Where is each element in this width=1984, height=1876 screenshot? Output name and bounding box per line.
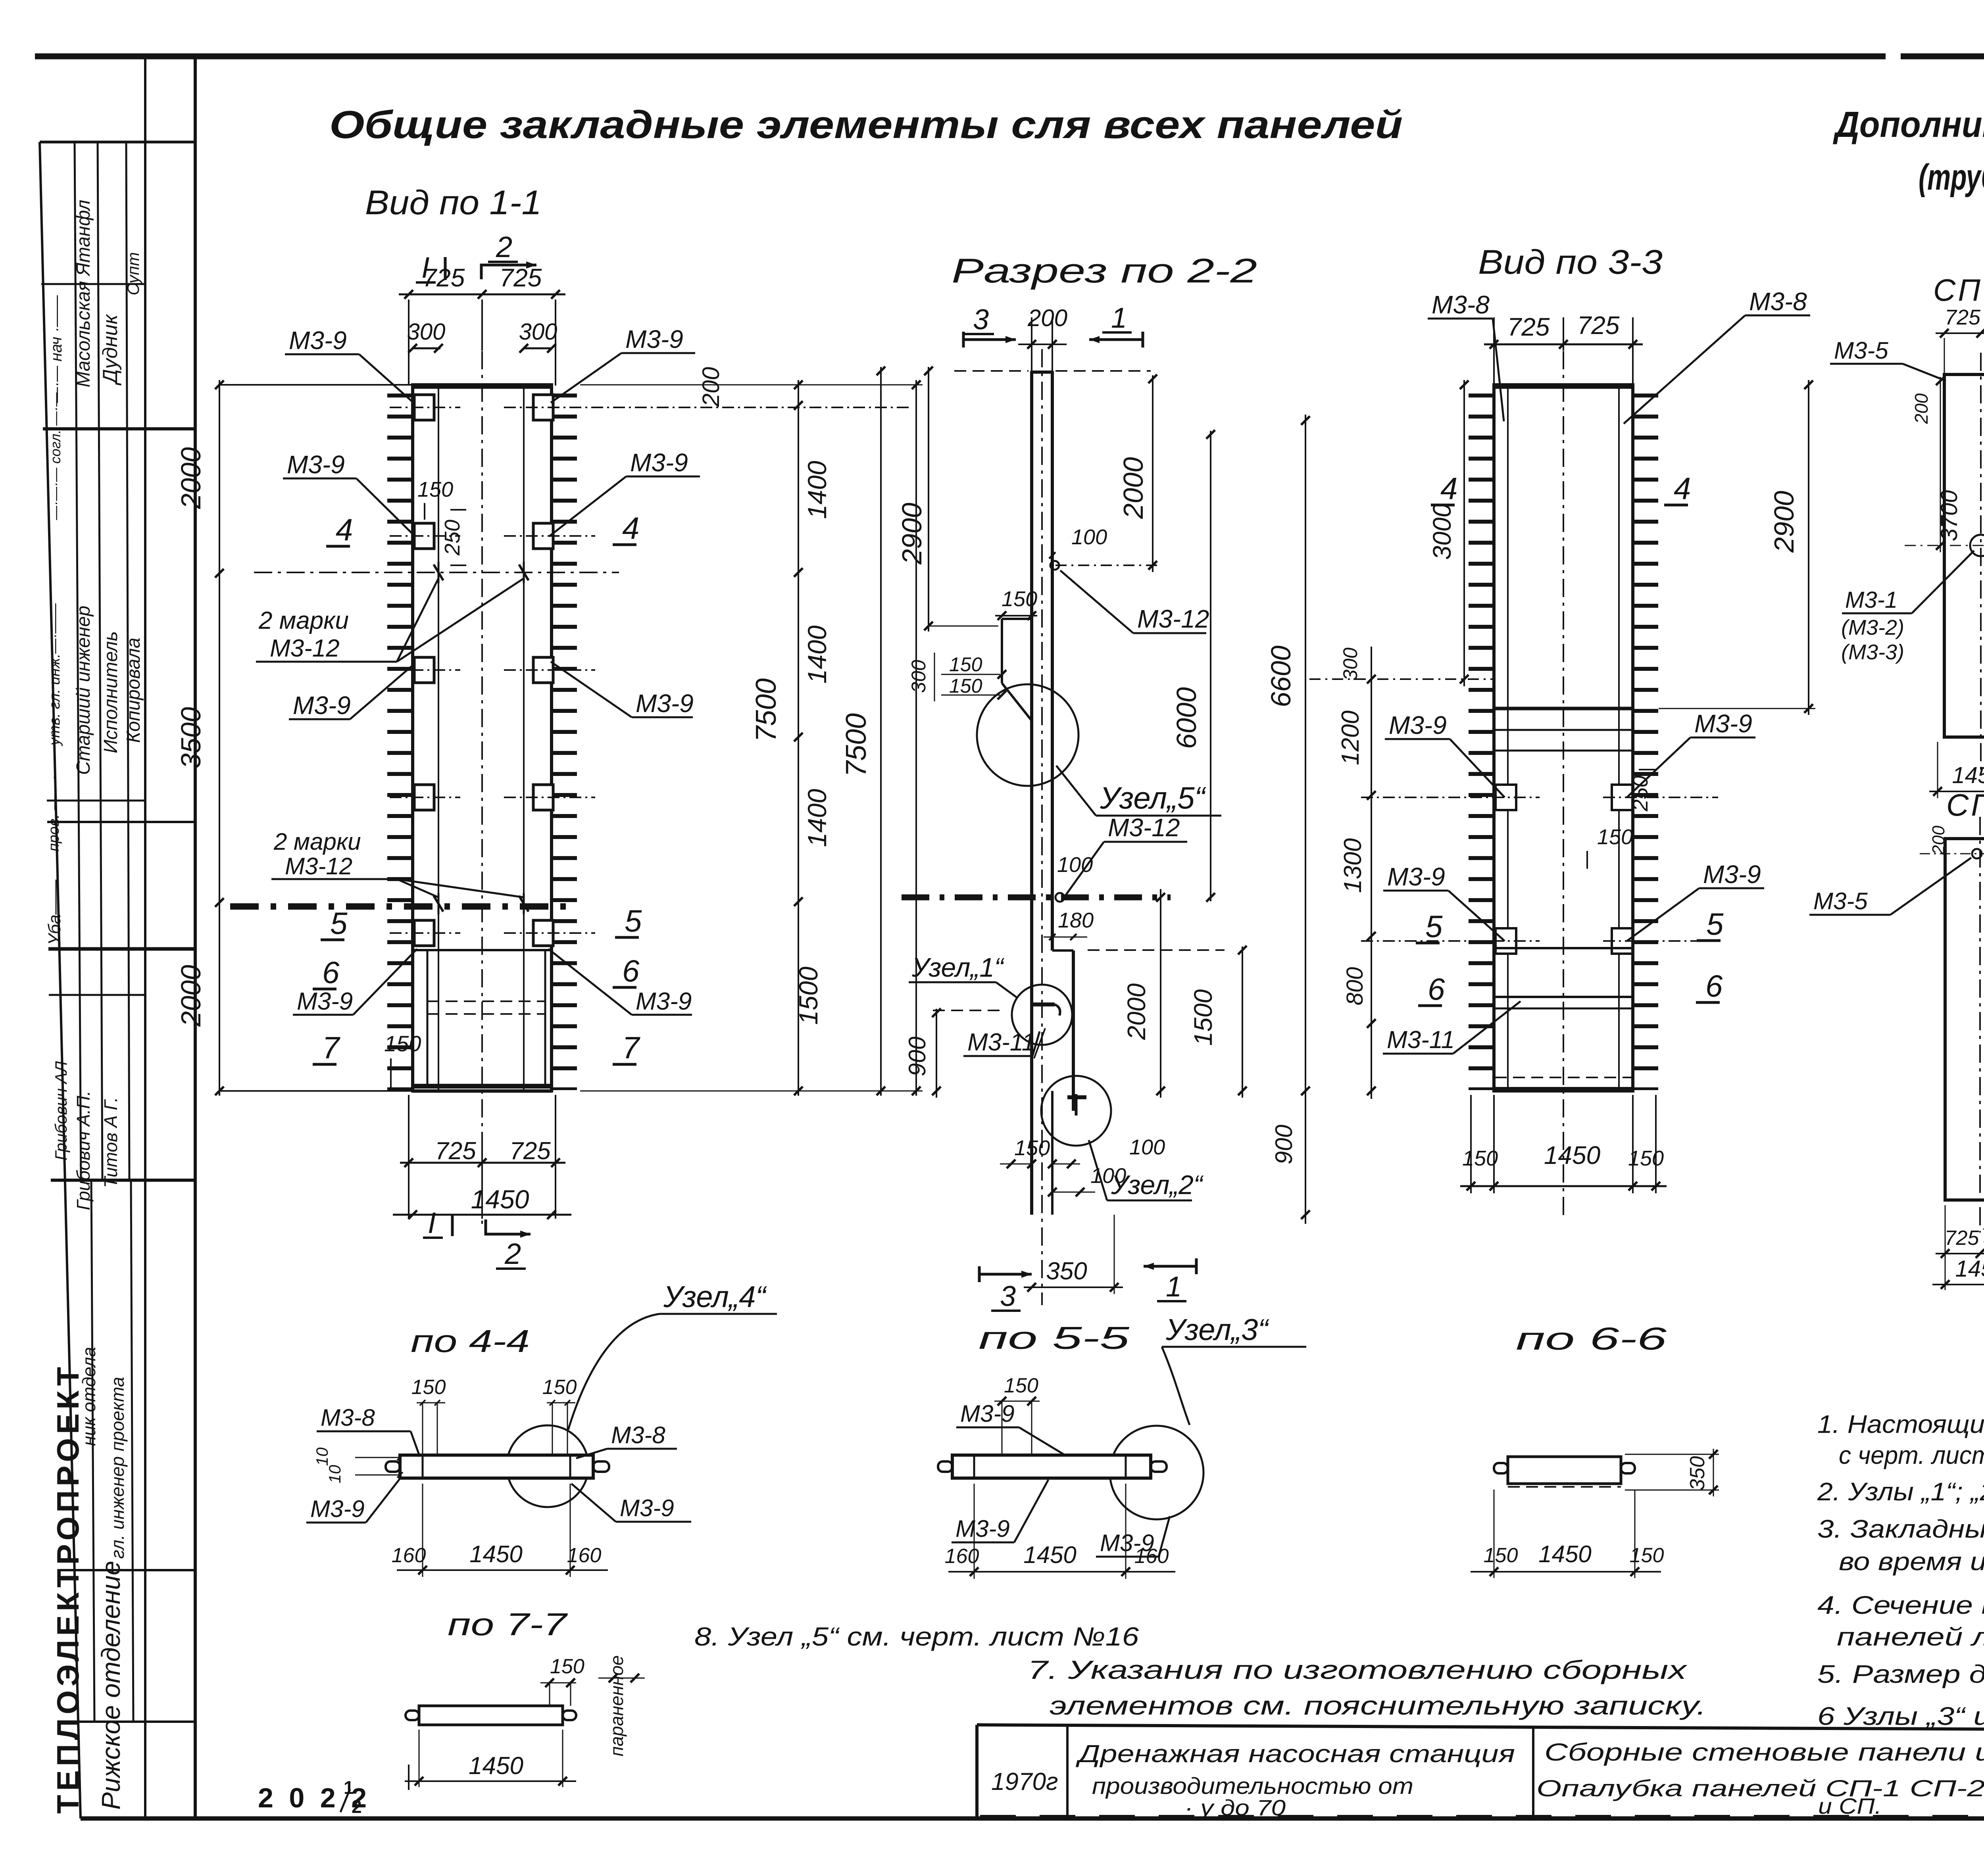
view 1-1 heavy line y2285 [230,903,569,910]
svg-text:Узел„4“: Узел„4“ [663,1280,767,1314]
sidebar horizontal rule y2392 [48,947,195,951]
view 1-1 dim 300 left [413,348,440,349]
embedded plate M3-9 right [533,920,553,946]
view 3-3 inner edge lines [1507,385,1509,1091]
svg-text:150: 150 [542,1376,577,1399]
sidebar horizontal rule y358 [40,141,195,144]
svg-text:7: 7 [322,1030,340,1065]
svg-text:150: 150 [949,675,982,697]
title block cell rules [1066,1726,1069,1818]
svg-text:725: 725 [1507,313,1550,341]
svg-text:725: 725 [1981,1224,1984,1247]
svg-text:1450: 1450 [1952,762,1984,788]
svg-text:150: 150 [1014,1136,1050,1160]
embedded plate M3-9 right [533,395,553,420]
embedded plate M3-9 left [414,523,434,549]
svg-text:2: 2 [352,1796,362,1817]
svg-text:Узел„3“: Узел„3“ [1165,1313,1269,1347]
svg-text:М3-11: М3-11 [967,1029,1035,1056]
plate axis line [390,797,460,798]
svg-text:150: 150 [411,1376,446,1399]
svg-text:М3-5: М3-5 [1834,337,1888,364]
svg-text:М3-12: М3-12 [1108,813,1180,842]
svg-text:Копировала: Копировала [123,637,144,743]
svg-text:М3-9: М3-9 [293,691,351,720]
svg-text:1450: 1450 [469,1541,522,1567]
section 2-2 wall step [1002,618,1032,620]
section 2-2 mark 3 bottom [979,1273,1032,1276]
svg-text:Масольская Ятанфл: Масольская Ятанфл [73,200,94,388]
svg-text:200: 200 [1911,393,1932,424]
svg-text:М3-9: М3-9 [625,325,683,353]
view 1-1 extension bottom [219,1090,413,1092]
sidebar horizontal rule y1081 [43,427,195,430]
svg-text:900: 900 [1271,1125,1297,1164]
embedded plate M3-9 right [533,523,553,549]
sidebar horizontal rule y716 [41,283,145,285]
view 1-1 top dim 725+725 [408,300,409,386]
svg-text:Грибович АЛ: Грибович АЛ [52,1061,70,1160]
title block bottom dashes [980,1815,1984,1817]
svg-text:7500: 7500 [750,678,782,742]
svg-text:I: I [428,1206,436,1239]
svg-text:150: 150 [417,478,453,501]
plate axis line [390,407,460,408]
section 2-2 foot step [1052,949,1073,952]
svg-text:Дополнительные закладные эле: Дополнительные закладные элементы [1833,104,1984,145]
view 3-3 joint band [1494,707,1633,710]
sidebar horizontal rule y4340 [64,1720,195,1723]
view 3-3 top dim 725+725 [1493,317,1495,386]
view 1-1 guide line y1443 [254,572,619,573]
sidebar horizontal rule y2975 [51,1179,195,1182]
svg-text:Вид по 1-1: Вид по 1-1 [365,184,542,222]
section 5-5 detail circle [1110,1426,1203,1519]
svg-text:300: 300 [407,319,446,345]
svg-text:180: 180 [1058,908,1094,932]
svg-text:М3-12: М3-12 [285,853,352,879]
panel SP-4 bottom dims [1936,1253,1984,1254]
view 3-3 plates [1496,785,1516,810]
svg-text:М3-8: М3-8 [321,1404,375,1431]
svg-text:—·— нач ·——: —·— нач ·—— [48,295,65,403]
detail circle Uzel 5 [977,684,1079,786]
svg-text:6 Узлы „3“ и „4“ разработ. на: 6 Узлы „3“ и „4“ разработ. на листе № 12 [1817,1702,1984,1730]
view 1-1 inner edge lines [438,385,439,1091]
svg-text:Вид по 3-3: Вид по 3-3 [1478,243,1663,281]
view 1-1 overall dim chain 7500 [915,380,917,1096]
svg-text:1400: 1400 [802,789,832,847]
svg-text:900: 900 [904,1037,930,1076]
sidebar right rule [144,56,146,1818]
sidebar horizontal rule y2508 [49,994,145,996]
view 3-3 left chain segments [1371,647,1372,1099]
svg-text:по 4-4: по 4-4 [411,1323,530,1359]
svg-text:2: 2 [496,230,512,263]
svg-text:2 марки: 2 марки [273,828,361,855]
section 2-2 chain 900 left [936,1009,937,1098]
view 1-1 foot dashed lines [427,1000,545,1002]
view 1-1 centerline [481,351,483,1228]
svg-text:1970г: 1970г [991,1768,1058,1795]
svg-text:725: 725 [500,263,542,292]
svg-text:М3-8: М3-8 [611,1422,665,1448]
svg-text:· у до 70: · у до 70 [1184,1795,1286,1820]
view 1-1 foot walls [427,950,429,1088]
svg-text:Дудник: Дудник [99,314,122,386]
svg-text:по 7-7: по 7-7 [448,1607,568,1642]
svg-text:Общие закладные элементы: Общие закладные элементы сля всех панеле… [329,103,1403,146]
svg-text:Узел„1“: Узел„1“ [911,952,1005,983]
page frame top border [35,54,1886,60]
svg-text:2000: 2000 [1122,983,1151,1040]
svg-text:725: 725 [435,1137,476,1165]
svg-text:1. Настоящий чертеж рассматр: 1. Настоящий чертеж рассматривать совмес… [1817,1410,1984,1438]
section 2-2 chain 7500 [880,367,882,1096]
svg-text:1450: 1450 [469,1752,523,1780]
svg-text:1200: 1200 [1337,710,1364,765]
svg-text:6600: 6600 [1265,645,1296,707]
view 1-1 right extensions [580,384,923,386]
panel SP-1 pipe hole [1970,535,1984,556]
view 3-3 chain 3000 [1463,380,1465,686]
svg-text:725: 725 [509,1137,551,1165]
svg-text:160: 160 [1134,1545,1169,1568]
svg-text:150: 150 [1484,1544,1518,1567]
title block left edge [975,1725,979,1818]
svg-text:7500: 7500 [840,713,872,777]
view 1-1 dim 300 right [523,348,552,349]
svg-text:1450: 1450 [1955,1256,1984,1282]
view 3-3 bottom features [1494,947,1633,949]
svg-text:пров. ——·: пров. ——· [46,775,62,852]
section 6-6 dim 350 [1713,1449,1714,1496]
svg-text:М3-9: М3-9 [955,1515,1010,1542]
section 4-4 bar [400,1455,593,1478]
section 2-2 centerline [1041,349,1043,1305]
svg-text:150: 150 [1597,825,1633,849]
svg-text:200: 200 [1929,826,1948,855]
section 5-5 bottom dim [974,1484,975,1579]
svg-text:2900: 2900 [896,503,927,565]
svg-text:2. Узлы „1“; „2“ см. лист № 1: 2. Узлы „1“; „2“ см. лист № 10 [1817,1477,1984,1506]
view 1-1 hatch right [552,394,577,1090]
svg-text:М3-5: М3-5 [1813,888,1868,914]
svg-text:1450: 1450 [1544,1141,1601,1169]
svg-text:150: 150 [1628,1146,1664,1170]
section 6-6 bottom dim [1494,1490,1495,1578]
view 1-1 extension top [219,384,413,386]
svg-text:100: 100 [1071,525,1107,549]
svg-text:М3-9: М3-9 [310,1496,365,1522]
svg-text:6: 6 [622,953,640,988]
svg-text:5: 5 [1425,909,1443,944]
svg-text:СП-4: СП-4 [1946,787,1984,822]
svg-text:800: 800 [1342,967,1368,1006]
svg-text:150: 150 [1462,1146,1498,1170]
section 2-2 chain 1500 [1242,947,1243,1098]
sidebar column rule lower A [91,1180,94,1722]
view 1-1 bottom heavy edge [413,1084,552,1089]
svg-text:СП-1: СП-1 [1933,273,1984,307]
svg-text:гл. инженер проекта: гл. инженер проекта [107,1377,128,1559]
svg-text:по 5-5: по 5-5 [979,1320,1130,1356]
section 6-6 bar [1508,1457,1621,1484]
svg-text:6: 6 [1705,968,1723,1003]
section 7-7 bottom dim 1450 [419,1730,420,1787]
svg-text:М3-8: М3-8 [1432,290,1490,319]
svg-text:М3-9: М3-9 [1387,862,1445,891]
svg-text:160: 160 [945,1545,979,1568]
svg-text:150: 150 [384,1031,421,1056]
sidebar column rule lower B [131,1180,133,1722]
view 3-3 hatch right [1633,394,1658,1090]
view 1-1 bottom section mark 2 [486,1219,531,1234]
view 1-1 hatch left [387,394,413,1090]
section 2-2 mark 1 bottom [1144,1265,1196,1268]
svg-text:725: 725 [1945,1227,1980,1250]
view 1-1 bottom dim 1450 [393,1214,571,1216]
svg-text:1450: 1450 [471,1185,529,1214]
section 4-4 bottom dim [422,1484,423,1577]
plate axis line [390,669,460,671]
embedded plate M3-9 left [414,395,434,420]
panel SP-4 outline [1945,839,1984,1200]
sidebar column rule C [126,142,129,1180]
svg-text:Грибович А.П.: Грибович А.П. [73,1091,94,1210]
svg-text:3: 3 [973,304,989,336]
svg-text:Титов А Г.: Титов А Г. [100,1097,121,1188]
svg-text:150: 150 [1630,1544,1664,1567]
panel SP-1 dim 3700 [1940,377,1941,552]
svg-text:150: 150 [1004,1374,1038,1397]
svg-text:200: 200 [1027,305,1067,331]
svg-text:1450: 1450 [1023,1542,1076,1568]
svg-text:150: 150 [949,653,982,676]
svg-text:М3-9: М3-9 [1703,860,1761,889]
svg-text:1: 1 [1166,1271,1182,1303]
svg-text:150: 150 [1002,587,1037,611]
svg-text:10: 10 [313,1447,331,1466]
plate axis line [390,932,460,934]
view 3-3 extension dashes [1309,678,1494,680]
view 3-3 panel outline [1494,385,1633,1091]
svg-text:8. Узел „5“ см. черт. лист №16: 8. Узел „5“ см. черт. лист №16 [694,1622,1139,1651]
svg-text:элементов см. пояснительную: элементов см. пояснительную записку. [1050,1691,1706,1720]
svg-text:350: 350 [1686,1456,1709,1491]
svg-text:1400: 1400 [802,625,832,684]
svg-text:2000: 2000 [1118,457,1149,519]
view 1-1 mid anchor marks row1 [434,565,443,580]
svg-text:М3-1: М3-1 [1845,587,1897,613]
svg-text:1400: 1400 [802,461,832,519]
svg-text:3. Закладные детали устанавл: 3. Закладные детали устанавливаются [1817,1515,1984,1543]
embedded plate M3-9 left [414,785,434,810]
section 2-2 chain 6000 [1210,431,1211,901]
svg-text:М3-9: М3-9 [636,988,692,1015]
svg-text:4: 4 [1440,471,1457,506]
svg-text:725: 725 [1945,305,1981,329]
svg-text:—·—·— согл. —·—: —·—·— согл. —·— [47,392,63,520]
svg-text:Старший инженер: Старший инженер [73,606,94,775]
svg-text:100: 100 [1090,1164,1126,1188]
svg-text:1450: 1450 [1538,1541,1591,1567]
view 3-3 chain 2900 right [1808,380,1809,715]
svg-text:2 марки: 2 марки [258,607,349,634]
view 1-1 top section mark 2 [481,265,536,279]
svg-text:ТЕПЛОЭЛЕКТРОПРОЕКТ: ТЕПЛОЭЛЕКТРОПРОЕКТ [50,1363,85,1814]
svg-text:М3-12: М3-12 [270,635,340,662]
svg-text:Уба——: Уба—— [45,879,64,945]
svg-text:5: 5 [330,906,348,941]
section 2-2 heavy line [902,895,1171,901]
embedded plate M3-9 right [533,785,553,810]
svg-text:М3-8: М3-8 [1749,287,1807,316]
svg-text:Сборные стеновые панели ш: Сборные стеновые панели шахты · [1544,1739,1984,1766]
view 1-1 left dim chain 2000/3500/2000 [219,380,220,1096]
section 7-7 bar [419,1706,563,1725]
section 2-2 chain 2900 [928,367,929,632]
svg-text:М3-9: М3-9 [289,326,347,355]
svg-text:7: 7 [622,1030,640,1065]
svg-text:300: 300 [1339,647,1361,681]
title block top rule [977,1725,1984,1732]
view 3-3 chain 6600 [1305,415,1306,1224]
svg-text:6: 6 [322,955,340,990]
svg-text:1300: 1300 [1339,838,1367,893]
embedded plate M3-9 left [414,920,434,946]
svg-text:5. Размер дается во время: 5. Размер дается во время привязки насос… [1817,1660,1984,1688]
view 1-1 bottom dim 725+725 [408,1095,409,1219]
svg-text:3700: 3700 [1936,490,1962,541]
svg-text:6: 6 [1428,972,1445,1006]
svg-text:160: 160 [567,1544,602,1567]
section 2-2 wall lines [1030,371,1033,1215]
svg-text:350: 350 [1046,1258,1087,1285]
section 4-4 detail circle [507,1425,588,1507]
svg-text:3000: 3000 [1428,503,1456,560]
svg-text:Супт: Супт [124,252,142,296]
svg-text:(М3-3): (М3-3) [1841,640,1904,664]
svg-text:М3-9: М3-9 [960,1400,1015,1427]
svg-text:М3-9: М3-9 [630,448,688,477]
svg-text:Разрез по 2-2: Разрез по 2-2 [952,252,1257,290]
svg-text:Рижское отделение: Рижское отделение [96,1561,125,1810]
svg-text:Узел„5“: Узел„5“ [1100,780,1206,815]
svg-text:по 6-6: по 6-6 [1516,1321,1667,1356]
panel SP-1 outline [1944,374,1984,737]
detail circle Uzel 2 [1041,1076,1111,1146]
svg-text:2000: 2000 [175,447,206,509]
svg-text:М3-11: М3-11 [1387,1026,1455,1054]
panel SP-4 centerline [1979,817,1981,1233]
section 2-2 chain 2000 lower [1160,889,1161,1098]
detail circle Uzel 1 [1012,985,1072,1045]
view 1-1 panel outline [413,385,552,1091]
section 2-2 chain 2000 right [1152,375,1153,572]
svg-text:2900: 2900 [1769,491,1799,553]
svg-text:с черт. листы № 5; 11; 12; 1: с черт. листы № 5; 11; 12; 13; 14; 15 [1839,1441,1984,1469]
svg-text:250: 250 [1628,776,1652,812]
sidebar horizontal rule y3958 [60,1569,195,1571]
sidebar left edge [40,142,81,1818]
svg-text:М3-9: М3-9 [287,450,345,479]
svg-text:М3-9: М3-9 [636,689,694,718]
svg-text:725: 725 [423,263,465,292]
panel SP-1 top dim 725 725 [1936,332,1984,334]
page frame bottom border [81,1816,1984,1821]
svg-text:250: 250 [440,520,464,556]
embedded plate M3-9 left [414,657,434,683]
svg-text:5: 5 [625,903,642,938]
svg-text:параненное: параненное [606,1655,627,1757]
svg-text:725: 725 [1577,311,1620,340]
svg-text:4. Сечение по I-I см. арматур: 4. Сечение по I-I см. арматурный чертеж [1817,1591,1984,1619]
view 3-3 bottom dim 150/1450/150 [1470,1095,1472,1193]
view 3-3 centerline [1563,351,1564,1220]
panel SP-4 plug [1972,849,1982,858]
svg-text:утв. гл. инж.—·——: утв. гл. инж.—·—— [46,603,63,747]
svg-text:6000: 6000 [1171,687,1202,749]
plate axis line [390,535,460,537]
view 3-3 hatch left [1469,394,1494,1090]
sidebar horizontal rule y2018 [47,800,145,802]
sidebar column rule A [75,142,81,1180]
svg-text:М3-12: М3-12 [1137,605,1209,633]
svg-text:(М3-2): (М3-2) [1841,616,1904,639]
section 2-2 dim 350 [1024,1287,1123,1288]
svg-text:300: 300 [907,660,930,693]
svg-text:и СП.: и СП. [1818,1793,1882,1818]
svg-text:М3-9: М3-9 [1389,711,1447,739]
svg-text:Дренажная насосная станция: Дренажная насосная станция [1076,1740,1515,1768]
svg-text:160: 160 [392,1544,426,1567]
svg-text:М3-9: М3-9 [1694,709,1752,738]
svg-text:200: 200 [698,367,724,407]
sidebar column rule B [98,142,102,1180]
svg-text:панелей лист. № 9: панелей лист. № 9 [1837,1623,1984,1651]
page frame main left border [194,56,197,1818]
sidebar horizontal rule y2072 [47,821,195,823]
svg-text:10: 10 [325,1465,344,1483]
svg-text:М3-9: М3-9 [297,988,353,1015]
svg-text:2: 2 [504,1237,521,1270]
section 2-2 top dashed extensions [954,370,1029,372]
svg-text:1500: 1500 [794,966,823,1025]
view 1-1 mid anchor marks row2 [434,896,443,912]
svg-text:4: 4 [622,511,639,545]
svg-text:во время изготовления элемен: во время изготовления элементов. [1839,1547,1984,1576]
svg-text:4: 4 [336,512,353,547]
embedded plate M3-9 right [533,657,553,683]
svg-text:1: 1 [1111,302,1127,334]
view 1-1 right dim chain segments [798,380,799,1096]
section 2-2 plug M3-12 upper [1050,561,1059,570]
svg-text:(трубы) в панелях.: (трубы) в панелях. [1919,157,1984,198]
svg-text:4: 4 [1674,471,1691,506]
panel SP-1 bottom dim 1450 [1929,791,1984,792]
svg-text:2000: 2000 [175,965,206,1027]
svg-text:3500: 3500 [175,707,206,769]
svg-text:1500: 1500 [1189,989,1217,1046]
svg-text:М3-9: М3-9 [620,1495,674,1521]
svg-text:150: 150 [550,1655,584,1678]
svg-text:3: 3 [1000,1281,1016,1312]
svg-text:5: 5 [1706,906,1724,941]
svg-text:300: 300 [519,319,558,345]
svg-text:7. Указания по изготовлению: 7. Указания по изготовлению сборных [1028,1655,1688,1684]
svg-text:100: 100 [1129,1135,1165,1159]
